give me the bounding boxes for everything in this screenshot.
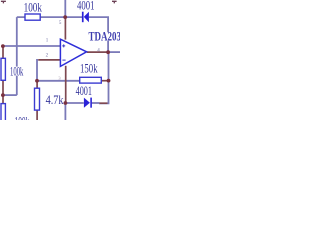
svg-text:100k: 100k [15,115,30,121]
pin: resistor R2 bottom pin [2,80,4,94]
diode D1 4001 (pointing left): cathode bar [82,12,84,23]
svg-text:100k: 100k [24,1,43,15]
wire: ground rail below node D to bottom edge [64,103,66,120]
wire: D1 anode to right elbow, down to output node [89,17,108,52]
wire: left-mid vertical riser x=16.4 from y=95.3 up to y=17.4 [16,17,18,95]
resistor R1 100k top horizontal box [25,14,40,20]
svg-text:150k: 150k [80,62,98,76]
svg-text:4001: 4001 [76,84,92,98]
diode D2 4001 (pointing right): triangle [84,98,90,108]
wire: bottom diode cathode to output rail [92,102,100,104]
power bar symbol top-right [112,1,117,3]
junction dot (R5 right / output rail) [107,79,111,83]
svg-text:TDA2030: TDA2030 [89,30,121,44]
resistor R2 100k left vertical box [1,58,5,80]
op-amp plus sign [62,44,65,47]
pin: op-amp pin5 (V+) vertical [64,18,66,40]
wire: output to right edge y=52.5 [108,51,120,53]
junction dot B (left rail / mid wire) [1,93,5,97]
pin: op-amp pin4 output [87,51,108,53]
resistor R4 4.7k vertical box [35,88,40,110]
pin: resistor R4 top pin [36,82,38,88]
op-amp U1 TDA2030 triangle [60,39,86,66]
wire: +V drop x=65.3 from top edge to node C [64,0,66,17]
svg-text:4001: 4001 [77,0,95,13]
diode D1 triangle [84,12,89,23]
junction node D (ground rail / D2 anode) [64,101,68,105]
svg-text:100k: 100k [10,65,24,79]
junction dot (output node) [106,50,110,54]
op-amp minus sign [62,59,65,61]
wire: output rail down right side to bottom diode corner [99,52,109,103]
pin: diode D2 cathode pin segment [100,102,108,104]
junction dot A (pin1 wire / left rail) [1,44,5,48]
pin: resistor R4 bottom pin [36,110,38,120]
pin: op-amp pin2 inverting input [38,59,60,61]
label bg for TDA2030 over output rail [88,32,120,41]
wire: top horizontal net y=17.4 from elbow to diode D1 [17,16,82,18]
power bar symbol top-left [1,1,6,3]
pin: op-amp pin3 (V-) vertical [65,66,67,102]
pin: resistor R2 top pin [2,47,4,59]
label bg for 100k (R2) over riser wire [10,67,24,76]
pin: resistor R3 top pin [2,96,4,103]
wire: feedback elbow from pin2 down x=37 [37,60,38,81]
pin: resistor R5 right pin [101,80,107,82]
wire: left-mid horizontal y=95.4 [3,94,17,96]
diode D2 cathode bar [90,98,92,108]
junction dot (feedback / R4 top) [35,79,39,83]
wire: bottom diode anode wire y=103.2 [66,102,84,104]
resistor R5 150k horizontal box [80,77,102,83]
junction node C (top net / pin5) [63,15,67,19]
svg-text:4.7k: 4.7k [46,93,65,107]
wire: feedback horizontal y=81.2 to 150k [37,80,80,82]
resistor R3 100k bottom-left vertical box (cut at bottom edge) [1,104,5,122]
wire: pin1 input wire y=46.4 [3,45,60,47]
